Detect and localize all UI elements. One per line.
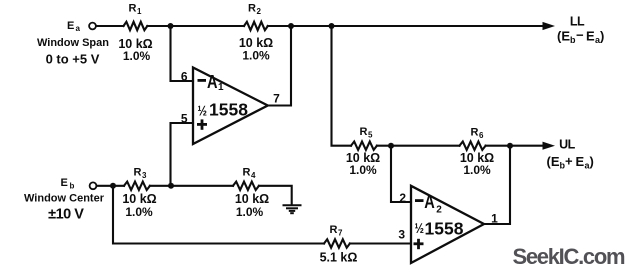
svg-text:(E: (E bbox=[557, 29, 570, 44]
svg-text:5: 5 bbox=[181, 112, 188, 126]
svg-text:2: 2 bbox=[257, 7, 262, 16]
svg-text:2: 2 bbox=[436, 205, 442, 216]
resistor R7 bbox=[324, 239, 350, 247]
label R7 bbox=[330, 224, 344, 238]
svg-text:R: R bbox=[134, 167, 142, 179]
svg-text:1558: 1558 bbox=[425, 219, 464, 239]
wire R6 to UL output bbox=[486, 145, 545, 147]
svg-text:1.0%: 1.0% bbox=[349, 163, 377, 177]
svg-text:A: A bbox=[424, 192, 435, 212]
svg-text:R: R bbox=[330, 224, 338, 236]
svg-text:1: 1 bbox=[491, 212, 498, 226]
svg-text:1.0%: 1.0% bbox=[123, 49, 151, 63]
svg-text:E: E bbox=[67, 20, 74, 32]
node E junction (R3/R4/pin5) bbox=[168, 183, 174, 189]
op-amp U1 A1 triangle bbox=[193, 68, 268, 145]
wire pin 5 to node E bbox=[171, 123, 194, 186]
svg-text:1.0%: 1.0% bbox=[463, 163, 491, 177]
svg-text:R: R bbox=[129, 3, 137, 15]
wire node A down to pin 6 bbox=[171, 26, 194, 81]
svg-text:a: a bbox=[76, 24, 81, 33]
svg-text:10 kΩ: 10 kΩ bbox=[122, 192, 156, 206]
svg-text:7: 7 bbox=[338, 229, 343, 238]
wire R1 to R2 (through node A) bbox=[147, 25, 244, 27]
label R4 bbox=[243, 167, 257, 181]
svg-text:Window Span: Window Span bbox=[37, 37, 109, 49]
node A junction (R1/R2/pin6) bbox=[168, 23, 174, 29]
op-amp U2 A2 triangle bbox=[411, 186, 484, 263]
node C junction (to R5) bbox=[329, 23, 335, 29]
op-amp A1 internal labels bbox=[197, 72, 248, 130]
svg-text:1.0%: 1.0% bbox=[242, 48, 270, 62]
svg-text:4: 4 bbox=[251, 171, 256, 180]
svg-text:A: A bbox=[207, 72, 218, 92]
wire R5 to R6 (through node D) bbox=[377, 145, 460, 147]
svg-text:): ) bbox=[590, 154, 594, 169]
svg-text:E: E bbox=[61, 177, 68, 189]
svg-text:7: 7 bbox=[273, 92, 280, 106]
svg-text:E: E bbox=[586, 29, 595, 44]
label R5 bbox=[360, 126, 374, 140]
svg-text:): ) bbox=[600, 29, 604, 44]
wire node C down to R5 bbox=[332, 26, 352, 146]
svg-text:1.0%: 1.0% bbox=[125, 205, 153, 219]
svg-text:6: 6 bbox=[479, 131, 484, 140]
node D junction (R5/R6/pin2) bbox=[388, 143, 394, 149]
wire node G down and along to R7 bbox=[113, 186, 324, 244]
label Ea bbox=[67, 20, 81, 33]
svg-text:3: 3 bbox=[398, 228, 405, 242]
terminal Ea (input circle) bbox=[89, 23, 96, 30]
svg-text:R: R bbox=[471, 127, 479, 139]
label Eb bbox=[61, 177, 75, 191]
wire R2 to LL output bbox=[268, 25, 545, 27]
label R2 bbox=[248, 3, 262, 17]
svg-text:6: 6 bbox=[181, 70, 188, 84]
LL output arrowhead bbox=[543, 22, 556, 30]
terminal Eb (input circle) bbox=[90, 182, 97, 189]
svg-text:½: ½ bbox=[415, 220, 425, 236]
svg-text:1558: 1558 bbox=[209, 99, 248, 119]
svg-text:1.0%: 1.0% bbox=[236, 205, 264, 219]
ground bbox=[284, 205, 301, 213]
svg-text:E: E bbox=[576, 154, 585, 169]
svg-text:−: − bbox=[576, 28, 584, 43]
wire A1 output pin 7 to node B bbox=[268, 26, 291, 106]
resistor R6 bbox=[460, 142, 486, 150]
svg-text:R: R bbox=[243, 167, 251, 179]
resistor R4 bbox=[233, 182, 259, 190]
resistor R2 bbox=[244, 22, 268, 30]
wire R7 to pin 3 bbox=[350, 242, 411, 244]
node G junction (Eb/R3/R7) bbox=[110, 183, 116, 189]
svg-text:+: + bbox=[565, 154, 573, 169]
svg-text:R: R bbox=[360, 126, 368, 138]
wire R4 to ground bbox=[259, 186, 292, 204]
svg-text:10 kΩ: 10 kΩ bbox=[235, 192, 269, 206]
label R6 bbox=[471, 127, 485, 141]
svg-text:±10 V: ±10 V bbox=[48, 207, 84, 223]
svg-text:(E: (E bbox=[547, 154, 560, 169]
svg-text:Window Center: Window Center bbox=[24, 193, 105, 205]
resistor R1 bbox=[124, 22, 148, 30]
svg-text:5: 5 bbox=[368, 131, 373, 140]
op-amp A2 internal labels bbox=[414, 192, 464, 249]
svg-text:2: 2 bbox=[399, 191, 406, 205]
svg-text:0 to +5 V: 0 to +5 V bbox=[46, 51, 100, 66]
svg-text:½: ½ bbox=[198, 102, 208, 118]
node B junction (A1 output feedback) bbox=[288, 23, 294, 29]
svg-text:SeekIC.com: SeekIC.com bbox=[513, 244, 625, 269]
svg-text:R: R bbox=[248, 3, 256, 15]
node F junction (A2 output feedback) bbox=[507, 143, 513, 149]
wire node D down to pin 2 bbox=[391, 146, 411, 202]
resistor R3 bbox=[124, 182, 150, 190]
svg-text:UL: UL bbox=[559, 137, 576, 151]
svg-text:1: 1 bbox=[137, 7, 142, 16]
label R3 bbox=[134, 167, 148, 181]
label (Eb + Ea) bbox=[547, 154, 594, 171]
svg-text:5.1 kΩ: 5.1 kΩ bbox=[320, 251, 358, 265]
wire R3 to R4 (through node E) bbox=[150, 185, 233, 187]
UL output arrowhead bbox=[543, 142, 556, 150]
label (Eb - Ea) bbox=[557, 28, 604, 46]
wire Ea to R1 bbox=[96, 25, 123, 27]
svg-text:b: b bbox=[70, 182, 75, 191]
wire Eb to R3 bbox=[97, 185, 124, 187]
wire A2 output pin 1 to node F bbox=[484, 146, 510, 224]
label R1 bbox=[129, 3, 143, 17]
svg-text:1: 1 bbox=[218, 82, 224, 93]
resistor R5 bbox=[351, 142, 377, 150]
svg-text:3: 3 bbox=[142, 171, 147, 180]
svg-text:LL: LL bbox=[570, 14, 585, 28]
